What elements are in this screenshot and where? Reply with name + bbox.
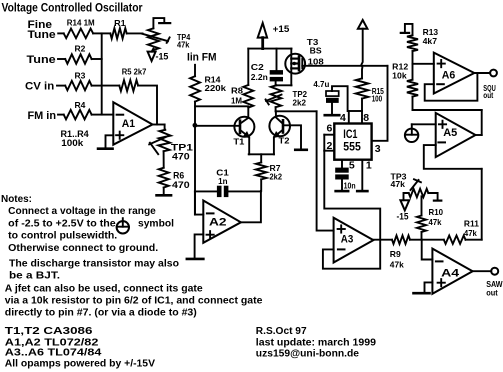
- svg-text:47k: 47k: [464, 228, 477, 238]
- svg-text:2k2: 2k2: [293, 97, 307, 107]
- svg-text:R5 2k7: R5 2k7: [122, 68, 147, 77]
- wire A2 inverting input: [195, 191, 203, 214]
- svg-text:-15: -15: [156, 51, 169, 61]
- resistor R7 2k2: [256, 154, 283, 191]
- power +15 bracket TP4: [153, 18, 170, 28]
- svg-text:470: 470: [172, 152, 190, 163]
- op-amp A5: [436, 113, 476, 157]
- resistor R13 4k7: [407, 27, 438, 64]
- svg-text:A3: A3: [341, 234, 354, 246]
- svg-text:R8: R8: [231, 85, 243, 95]
- wire Fine Tune stub: [58, 32, 64, 34]
- ground pin 1: [357, 160, 367, 191]
- svg-text:FM in: FM in: [28, 110, 57, 122]
- label pin 4: [340, 112, 346, 124]
- ground R6: [157, 188, 172, 196]
- resistor R6 470: [159, 151, 190, 191]
- ground 4.7u: [325, 114, 340, 117]
- svg-text:R2: R2: [75, 43, 86, 53]
- wire T2 collector: [275, 111, 277, 117]
- wire R14 to bus: [93, 32, 102, 34]
- svg-text:47k: 47k: [429, 217, 442, 227]
- svg-text:1: 1: [366, 160, 372, 172]
- wire summing bus: [101, 33, 103, 114]
- svg-text:Connect a voltage in the range: Connect a voltage in the range: [8, 206, 156, 217]
- resistor R15 100: [356, 78, 385, 111]
- resistor R12 10k: [392, 61, 418, 110]
- capacitor 4.7u: [313, 79, 347, 114]
- wire timing node to A3: [317, 111, 334, 230]
- svg-text:+15: +15: [273, 24, 290, 35]
- op-amp A6: [434, 53, 475, 94]
- svg-text:Iin FM: Iin FM: [187, 51, 217, 63]
- svg-text:A4: A4: [441, 267, 460, 279]
- svg-text:R10: R10: [429, 207, 444, 217]
- svg-text:Voltage Controlled Oscillator: Voltage Controlled Oscillator: [2, 0, 143, 14]
- ground 10n: [336, 190, 349, 193]
- svg-text:555: 555: [343, 139, 361, 153]
- capacitor C1 1n: [195, 168, 261, 197]
- wire +15 rail: [248, 48, 291, 50]
- wire pins 4 8: [349, 111, 362, 122]
- junction dot T1 base: [193, 123, 198, 128]
- svg-text:R14 1M: R14 1M: [67, 19, 95, 28]
- transistor T1: [233, 117, 254, 147]
- svg-text:2.2n: 2.2n: [251, 72, 268, 82]
- wire R12 R13 to A6: [413, 63, 434, 65]
- notes text 2: [9, 258, 179, 281]
- svg-text:3: 3: [375, 143, 381, 155]
- svg-text:Notes:: Notes:: [1, 194, 32, 205]
- op-amp A4: [432, 249, 472, 294]
- transistor T2: [269, 116, 290, 146]
- svg-text:R.S.Oct 97: R.S.Oct 97: [256, 326, 307, 337]
- resistor R5 2k7 feedback: [102, 68, 147, 92]
- svg-text:last update: march 1999: last update: march 1999: [256, 337, 377, 348]
- svg-text:47k: 47k: [390, 259, 404, 269]
- svg-text:2k2: 2k2: [270, 172, 283, 181]
- wire T2 emitter: [273, 137, 275, 154]
- svg-text:R11: R11: [464, 218, 479, 228]
- wire A1 output: [153, 124, 165, 126]
- potentiometer TP2 2k2: [266, 85, 308, 107]
- resistor R9 47k: [390, 236, 422, 270]
- label pin 3: [375, 143, 381, 155]
- ground A1 noninverting input: [98, 135, 113, 148]
- svg-text:A2: A2: [209, 216, 227, 228]
- svg-text:via a 10k resistor to pin 6/2: via a 10k resistor to pin 6/2 of IC1, an…: [5, 296, 263, 307]
- svg-text:A5: A5: [443, 127, 457, 139]
- notes text: [1, 194, 174, 254]
- svg-text:100: 100: [372, 95, 383, 104]
- svg-text:out: out: [483, 91, 493, 100]
- wire A6 output: [474, 72, 490, 74]
- svg-text:4k7: 4k7: [423, 36, 438, 46]
- svg-text:10k: 10k: [392, 70, 407, 80]
- wire A5 output: [476, 134, 482, 136]
- svg-text:5: 5: [349, 160, 355, 172]
- svg-text:R9: R9: [390, 249, 401, 259]
- power +15 arrow right: [358, 20, 368, 78]
- svg-text:A3..A6 TL074/84: A3..A6 TL074/84: [5, 348, 102, 359]
- wire A2 output: [241, 191, 261, 222]
- svg-text:4: 4: [340, 112, 346, 124]
- wire A5 output up: [481, 110, 483, 135]
- wire TP2 to T2 collector node: [276, 107, 317, 111]
- svg-text:1M: 1M: [231, 95, 242, 105]
- label pin 1: [366, 160, 372, 172]
- node pulsewidth symbol in notes: [117, 218, 129, 233]
- svg-text:47k: 47k: [177, 40, 190, 49]
- ic IC1 555: [334, 124, 371, 160]
- ground A4 noninverting input: [414, 282, 433, 293]
- svg-text:100k: 100k: [61, 138, 84, 148]
- node Iin FM input: [187, 51, 217, 63]
- wire Tune stub: [58, 58, 65, 60]
- resistor R3: [65, 70, 91, 90]
- label R1..R4 100k: [61, 129, 89, 148]
- svg-text:T2: T2: [279, 136, 290, 146]
- svg-text:220k: 220k: [205, 83, 227, 93]
- wire R4 to bus: [92, 114, 102, 116]
- wire T1 emitter: [248, 137, 250, 154]
- potentiometer TP4 47k: [142, 28, 191, 50]
- svg-text:T1,T2 CA3086: T1,T2 CA3086: [5, 326, 93, 337]
- wire junction to R11: [422, 239, 444, 241]
- label pin 5: [349, 160, 355, 172]
- svg-text:CV in: CV in: [25, 80, 54, 92]
- op-amp A3: [334, 218, 374, 263]
- capacitor C2 2.2n: [251, 49, 283, 86]
- capacitor 10n pin5: [335, 160, 355, 191]
- terminal SAW out: [486, 268, 503, 298]
- wire R1 to TP4 wiper: [127, 32, 143, 34]
- resistor R14 1M: [64, 19, 95, 39]
- svg-text:8: 8: [363, 112, 369, 124]
- svg-text:Tune: Tune: [27, 54, 56, 66]
- svg-text:C2: C2: [251, 62, 264, 72]
- wire T1 base: [195, 125, 239, 127]
- ground T2 base: [284, 125, 307, 150]
- title: [2, 0, 143, 14]
- svg-text:All opamps powered by +/-15V: All opamps powered by +/-15V: [5, 358, 156, 369]
- wire A3 output: [373, 239, 392, 241]
- resistor R2: [65, 43, 91, 63]
- svg-text:uzs159@uni-bonn.de: uzs159@uni-bonn.de: [256, 349, 360, 360]
- wire pin 3 to T3 gate: [302, 66, 387, 141]
- svg-text:BS: BS: [310, 46, 322, 56]
- ground A2 noninverting input: [187, 234, 204, 259]
- resistor R4: [64, 100, 92, 120]
- notes text credits: [256, 326, 377, 360]
- label pin 8: [363, 112, 369, 124]
- resistor R11 47k: [444, 218, 482, 244]
- wire A5 feedback loop: [424, 145, 482, 169]
- potentiometer TP3 47k: [391, 171, 429, 200]
- wire bus to A1 inverting input: [102, 114, 114, 116]
- svg-text:The discharge transistor may a: The discharge transistor may also: [9, 258, 179, 269]
- terminal SQU out: [483, 70, 497, 101]
- node FM in input: [28, 110, 57, 122]
- svg-text:R3: R3: [75, 70, 86, 80]
- wire junction to A4 inverting: [422, 240, 433, 260]
- svg-text:A jfet can also be used, conne: A jfet can also be used, connect its gat…: [5, 284, 203, 295]
- transistor T3 BS108: [285, 37, 324, 85]
- power +15 bracket TP3: [428, 193, 441, 201]
- node pulsewidth input A5: [405, 124, 436, 142]
- svg-text:A1: A1: [122, 118, 135, 130]
- resistor R8 1M: [231, 49, 253, 118]
- svg-text:4.7u: 4.7u: [313, 79, 329, 89]
- resistor R14 220k: [190, 65, 226, 102]
- wire C2 to TP2 node: [276, 84, 292, 86]
- svg-text:of -2.5 to +2.5V to the: of -2.5 to +2.5V to the: [8, 218, 116, 229]
- wire current summing node vertical: [194, 102, 196, 215]
- svg-text:out: out: [486, 289, 498, 298]
- wire R3 to bus: [92, 85, 102, 87]
- wire R5 to A1 output: [138, 86, 157, 125]
- power +15 arrow: [258, 23, 290, 49]
- resistor R1: [102, 18, 127, 38]
- svg-text:T1: T1: [233, 136, 244, 146]
- wire common emitters: [249, 153, 274, 155]
- op-amp A2: [203, 201, 241, 243]
- potentiometer TP1 470: [149, 125, 194, 163]
- label pin 2: [327, 140, 333, 152]
- node Tune input: [27, 54, 56, 66]
- wire A4 output: [473, 270, 492, 272]
- label pin 6: [327, 123, 333, 135]
- svg-text:be a BJT.: be a BJT.: [9, 271, 60, 282]
- svg-text:1n: 1n: [218, 176, 227, 186]
- wire A5 inverting down to R11: [481, 169, 483, 240]
- svg-text:directly to pin #7. (or via a: directly to pin #7. (or via a diode to #…: [5, 308, 197, 319]
- svg-text:Tune: Tune: [28, 29, 56, 41]
- wire node to R8: [195, 105, 248, 107]
- svg-text:A6: A6: [442, 69, 456, 81]
- power -15 arrow TP4: [148, 49, 169, 62]
- notes text 3: [5, 284, 263, 319]
- notes text parts: [5, 326, 156, 369]
- wire pins 6 2: [324, 135, 334, 151]
- svg-text:47k: 47k: [391, 179, 406, 189]
- svg-text:symbol: symbol: [138, 218, 174, 229]
- resistor R10 47k: [417, 196, 443, 239]
- wire FM in stub: [58, 114, 64, 116]
- wire pins 2 6 to A3 loop: [323, 151, 380, 269]
- node Fine Tune input: [28, 19, 56, 41]
- svg-text:to control pulsewidth.: to control pulsewidth.: [8, 231, 117, 242]
- svg-text:10n: 10n: [344, 180, 356, 190]
- svg-text:Otherwise connect to ground.: Otherwise connect to ground.: [8, 243, 158, 254]
- node CV in input: [25, 80, 54, 92]
- wire A5 to R12: [413, 109, 482, 111]
- svg-text:-15: -15: [397, 212, 409, 222]
- wire A6 feedback loop: [425, 73, 478, 100]
- power +15 bracket R13: [401, 24, 413, 35]
- svg-text:470: 470: [172, 180, 190, 191]
- svg-text:6: 6: [327, 123, 333, 135]
- wire R2 to bus: [92, 58, 102, 60]
- op-amp A1: [113, 102, 152, 145]
- wire CV in stub: [57, 85, 65, 87]
- power -15 arrow TP3: [397, 200, 410, 221]
